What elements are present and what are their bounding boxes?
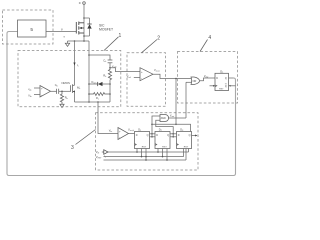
FF D1	[135, 132, 150, 149]
clock vertical from node	[175, 79, 177, 125]
svg-text:NMOS: NMOS	[62, 81, 71, 85]
svg-text:+: +	[141, 70, 143, 74]
wire D2.Qb to D3 lower pin	[170, 136, 177, 138]
source rail	[68, 40, 90, 42]
svg-text:Rk: Rk	[103, 74, 106, 79]
svg-text:Q: Q	[225, 77, 227, 80]
resistor Rk	[108, 68, 111, 80]
svg-text:Vout,s: Vout,s	[154, 68, 160, 73]
resistor Rs branch	[89, 93, 110, 96]
svg-text:MOSFET: MOSFET	[99, 27, 113, 31]
node sense	[109, 67, 111, 69]
svg-text:AND: AND	[161, 117, 166, 120]
D flip-flop U4	[215, 73, 229, 90]
svg-text:Q: Q	[147, 134, 149, 137]
delay buffer	[104, 150, 108, 155]
region 3 dashed box	[96, 113, 199, 170]
svg-text:RST: RST	[142, 147, 147, 149]
svg-text:vgs: vgs	[28, 88, 31, 92]
D3 output arrow	[192, 135, 196, 137]
svg-text:g: g	[61, 28, 63, 31]
FF D2	[155, 132, 170, 149]
leader 4	[200, 40, 208, 52]
wire drain	[83, 4, 85, 41]
OR gate	[191, 77, 200, 85]
gate driver block 5	[18, 20, 47, 37]
bottom sense rail	[75, 101, 111, 103]
resistor Rb	[60, 91, 63, 104]
riser to OR	[185, 82, 187, 118]
svg-text:D: D	[156, 134, 158, 137]
svg-text:4: 4	[208, 35, 211, 41]
AND inputs	[152, 116, 160, 134]
leader 1	[104, 37, 119, 51]
leader 2	[142, 40, 158, 53]
wire D1.Qb to D2 lower pin	[150, 136, 156, 138]
svg-text:Rs: Rs	[96, 97, 99, 101]
svg-text:1: 1	[119, 33, 122, 39]
body diode	[84, 17, 90, 19]
svg-text:Q: Q	[189, 134, 191, 137]
svg-text:5: 5	[30, 27, 33, 33]
svg-text:-: -	[119, 135, 120, 139]
feedback loop wire	[7, 32, 236, 176]
svg-text:-: -	[41, 93, 42, 97]
region 2 dashed box	[127, 53, 166, 107]
region 4 dashed box	[178, 52, 238, 104]
svg-text:Cb: Cb	[55, 84, 58, 88]
svg-text:VRST: VRST	[96, 155, 102, 160]
svg-text:RST: RST	[162, 147, 167, 149]
Q output wire	[229, 77, 234, 79]
svg-text:Dsen: Dsen	[92, 81, 97, 85]
svg-text:is: is	[77, 63, 80, 68]
leader 3	[76, 130, 96, 145]
svg-text:D: D	[136, 134, 138, 137]
AND output	[169, 117, 187, 119]
OR bottom input	[186, 81, 192, 83]
capacitor Ck	[108, 59, 113, 61]
diode Dsen branch	[89, 83, 98, 85]
wire to Ck	[89, 55, 110, 60]
svg-text:Vks: Vks	[109, 128, 113, 133]
capacitor Cb	[51, 90, 57, 92]
NMOS Mk	[71, 84, 76, 93]
SiC MOSFET Q1	[76, 22, 84, 35]
svg-text:RST: RST	[219, 89, 224, 91]
svg-text:D: D	[79, 1, 81, 5]
clock cross wire	[152, 124, 191, 131]
current arrow i_s	[73, 63, 75, 66]
clk arrow stub	[210, 85, 214, 87]
wire driver to gate	[46, 31, 76, 33]
ref stub	[134, 77, 140, 79]
sense leg	[88, 41, 90, 102]
svg-text:D: D	[178, 134, 180, 137]
region 1 dashed box	[18, 51, 121, 107]
svg-text:Vout,k: Vout,k	[128, 127, 135, 132]
wire i_s leg	[74, 41, 76, 85]
drain terminal	[83, 2, 86, 5]
svg-text:+: +	[119, 129, 121, 133]
svg-text:RST: RST	[184, 147, 189, 149]
kelvin ground	[67, 41, 69, 43]
sense output leg	[98, 102, 118, 134]
svg-text:Mk: Mk	[77, 85, 81, 90]
svg-text:Vout: Vout	[170, 115, 175, 119]
svg-text:OR: OR	[193, 80, 197, 83]
ground	[60, 104, 64, 107]
svg-text:3: 3	[71, 145, 74, 151]
svg-text:Ck: Ck	[103, 58, 106, 63]
svg-text:Vref: Vref	[127, 74, 132, 79]
wire to comparator U2	[110, 68, 140, 72]
svg-text:2: 2	[157, 35, 160, 41]
svg-text:-: -	[141, 76, 142, 80]
svg-text:Vth: Vth	[28, 94, 31, 99]
svg-text:Q: Q	[167, 134, 169, 137]
svg-text:Vth: Vth	[96, 150, 99, 155]
comparator U2	[140, 68, 153, 81]
Qbar stub from feedback	[231, 85, 236, 87]
FF D3	[177, 132, 192, 149]
OR output to FF	[200, 78, 215, 81]
comparator U3	[118, 128, 129, 140]
comparator U1	[40, 86, 51, 98]
wire D1.Q to D2.D	[150, 133, 156, 135]
svg-text:s: s	[64, 36, 66, 39]
AND gate	[160, 115, 169, 122]
svg-text:Q: Q	[225, 85, 227, 88]
gate driver dashed enclosure	[3, 10, 54, 44]
rail 3	[104, 159, 187, 161]
wire	[109, 80, 111, 102]
svg-text:Rb: Rb	[65, 96, 68, 100]
svg-text:D: D	[216, 77, 218, 80]
wire D2.Q to D3.D	[170, 133, 177, 135]
wire U2 output	[153, 74, 191, 78]
